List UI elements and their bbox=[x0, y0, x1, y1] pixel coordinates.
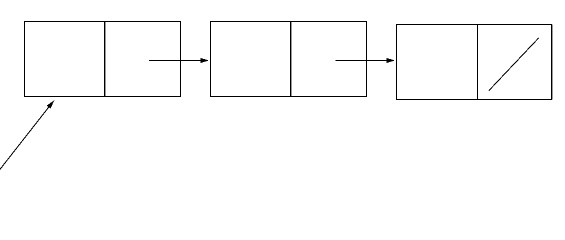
node N3 divider bbox=[477, 25, 479, 100]
wire arrow N1 to N2 shaft bbox=[149, 60, 204, 62]
node N1 divider bbox=[104, 22, 106, 97]
node N2 box bbox=[211, 22, 367, 97]
node N2 divider AA ghost column bbox=[291, 22, 293, 97]
node N3 right edge AA ghost column bbox=[552, 25, 554, 100]
head pointer arrowhead bbox=[47, 100, 55, 109]
node N1 divider AA ghost column bbox=[105, 22, 107, 97]
node N1 box bbox=[25, 22, 181, 97]
node N3 box bbox=[397, 25, 552, 100]
node N2 divider bbox=[290, 22, 292, 97]
arrowhead N1 to N2 bbox=[200, 58, 209, 63]
wire arrow N2 to N3 shaft bbox=[336, 60, 391, 62]
arrowhead N2 to N3 bbox=[386, 58, 395, 63]
null slash in N3 pointer cell bbox=[489, 38, 539, 91]
head pointer arrow shaft bbox=[0, 103, 52, 171]
